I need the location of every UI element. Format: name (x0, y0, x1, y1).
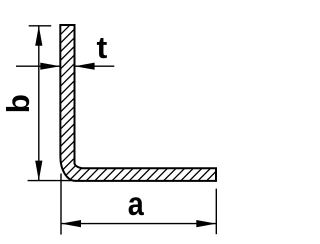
svg-text:a: a (128, 185, 145, 222)
svg-text:b: b (0, 94, 36, 113)
svg-text:t: t (97, 30, 108, 65)
